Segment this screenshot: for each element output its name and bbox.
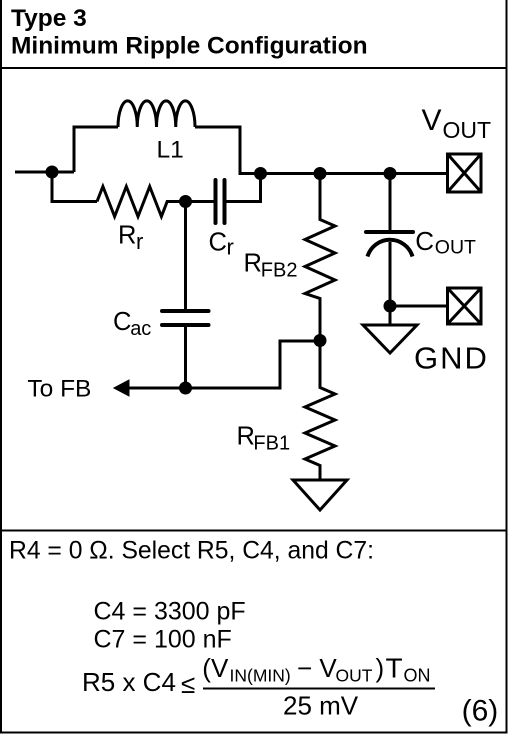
svg-text:GND: GND — [414, 340, 489, 375]
svg-text:C: C — [113, 308, 131, 336]
svg-text:R: R — [237, 423, 255, 451]
svg-text:L1: L1 — [157, 137, 184, 164]
svg-text:r: r — [136, 229, 143, 254]
svg-text:FB2: FB2 — [261, 260, 298, 282]
svg-text:To FB: To FB — [27, 376, 91, 403]
svg-text:R4 = 0 Ω. Select R5, C4, and C: R4 = 0 Ω. Select R5, C4, and C7: — [9, 538, 374, 565]
svg-text:FB1: FB1 — [253, 433, 290, 455]
svg-text:V: V — [422, 104, 442, 137]
svg-text:OUT: OUT — [336, 666, 373, 686]
svg-text:C7 = 100 nF: C7 = 100 nF — [94, 626, 232, 654]
svg-text:(6): (6) — [462, 694, 499, 727]
svg-text:Type 3: Type 3 — [11, 5, 87, 32]
svg-text:Minimum Ripple Configuration: Minimum Ripple Configuration — [11, 33, 368, 60]
svg-text:T: T — [386, 653, 403, 684]
svg-text:C4 = 3300 pF: C4 = 3300 pF — [94, 598, 246, 626]
svg-text:R5 x C4: R5 x C4 — [82, 667, 176, 697]
svg-text:IN(MIN): IN(MIN) — [230, 666, 291, 686]
svg-text:ON: ON — [404, 666, 431, 686]
svg-text:(V: (V — [202, 653, 229, 683]
svg-text:): ) — [376, 653, 385, 683]
svg-text:R: R — [244, 250, 262, 278]
svg-text:C: C — [415, 226, 434, 256]
svg-text:OUT: OUT — [443, 117, 492, 143]
svg-text:R: R — [118, 222, 136, 250]
svg-text:25 mV: 25 mV — [283, 691, 359, 721]
svg-text:OUT: OUT — [435, 236, 476, 258]
svg-text:≤: ≤ — [181, 669, 195, 699]
svg-text:ac: ac — [130, 318, 151, 340]
svg-text:C: C — [209, 229, 227, 257]
svg-text:− V: − V — [297, 653, 337, 683]
svg-text:r: r — [227, 234, 234, 259]
